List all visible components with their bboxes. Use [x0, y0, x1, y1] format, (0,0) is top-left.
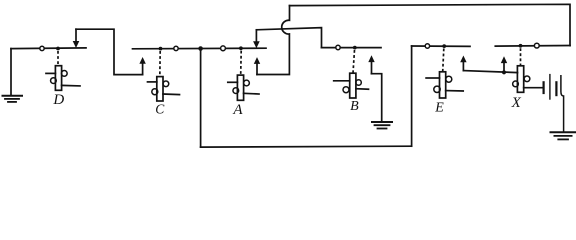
dashed cord to jack B [353, 50, 355, 73]
jack C [148, 77, 180, 101]
ground (right) [551, 132, 576, 139]
jack B [334, 73, 369, 98]
contact circle on bus 2 [174, 46, 178, 50]
wire from plug B down to middle ground [372, 74, 382, 122]
contact circle on bus 1 [40, 46, 44, 50]
junction dot, cord of jack C [159, 47, 163, 51]
junction dot, cord of jack A [239, 46, 243, 50]
junction dot, cord of jack E [442, 44, 446, 48]
contact circle on bus 2 (right) [221, 46, 226, 51]
plug arrow (up) under bus 3 [368, 55, 374, 73]
jack X [513, 66, 544, 93]
dashed cord to jack X [520, 48, 522, 66]
svg-text:C: C [155, 101, 165, 116]
plug arrow (up) under bus 4 [460, 56, 466, 71]
dashed cord to jack C [159, 51, 161, 77]
svg-text:X: X [511, 95, 522, 111]
junction dot, cord of jack X [519, 44, 523, 48]
jack E [426, 72, 463, 98]
plug arrow (up) under bus 2 (right) [254, 57, 260, 74]
dashed cord to jack D [57, 51, 59, 66]
ground (left) [3, 49, 23, 102]
dashed cord to jack A [240, 51, 243, 75]
svg-text:B: B [350, 99, 359, 114]
plug arrow (down) into bus 2 [253, 30, 260, 48]
junction dot to bottom bus [198, 46, 203, 51]
top wire [290, 4, 571, 45]
battery [544, 75, 564, 132]
wire step from plug D down to plug C [76, 29, 143, 74]
contact circle on bus 4 [425, 44, 429, 48]
bus wire 1 [11, 47, 86, 50]
bottom bus wire [201, 145, 412, 148]
junction dot, cord of jack B [353, 46, 357, 50]
bus wire 3 [322, 47, 382, 49]
junction dot, cord of jack D [56, 47, 60, 51]
wire from plug E to tip spring of jack X [463, 71, 517, 73]
svg-text:A: A [232, 102, 243, 118]
jack D [46, 66, 80, 91]
wire up from bottom bus to bus 4 [411, 46, 413, 146]
plug arrow (down) into bus 1 [73, 29, 80, 48]
bus wire 4 [412, 45, 470, 47]
svg-text:D: D [52, 92, 64, 108]
plug arrow (up) under bus 2 [139, 57, 145, 75]
svg-text:E: E [434, 101, 444, 116]
dashed cord to jack E [443, 49, 444, 72]
junction dot on jack X tip wire [502, 70, 506, 74]
ground (middle) [372, 122, 392, 129]
bus wire 5 [495, 45, 570, 48]
plug arrow (up) under bus 5 [501, 56, 507, 72]
contact circle on bus 5 [534, 43, 539, 48]
crossover hop wire from top wire down to plug arrow [257, 6, 290, 75]
contact circle on bus 3 [336, 45, 340, 49]
wire from plug A up and over to bus 3 [256, 28, 321, 48]
bus wire 2 [133, 47, 267, 50]
jack A [228, 75, 259, 100]
wire down to bottom bus [200, 49, 202, 148]
